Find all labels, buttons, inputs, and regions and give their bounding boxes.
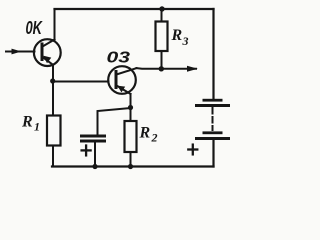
label capacitor plus <box>82 146 91 156</box>
svg-text:3: 3 <box>182 34 189 48</box>
battery GB cell 1 short plate <box>203 99 223 102</box>
transistor Q2 (OE stage) <box>108 66 136 94</box>
wire node A to Q2 base <box>53 81 109 83</box>
resistor R2 <box>125 121 137 152</box>
node R2-rail junction dot <box>128 164 133 169</box>
wire R1 to bottom rail <box>52 146 54 167</box>
wire top rail <box>55 8 214 10</box>
battery GB cell 1 long plate <box>195 104 230 107</box>
node B junction dot <box>128 105 133 110</box>
wire R3 bottom lead <box>161 51 163 69</box>
wire node B to capacitor <box>98 108 131 135</box>
battery GB cell 2 short plate <box>203 131 223 134</box>
node top junction dot <box>159 6 164 11</box>
svg-text:R: R <box>139 125 151 142</box>
wire battery to bottom rail <box>212 140 214 167</box>
battery GB cell 2 long plate <box>195 137 230 140</box>
svg-text:0K: 0K <box>26 18 44 38</box>
wire output with arrow <box>137 67 197 70</box>
svg-text:R: R <box>171 27 183 44</box>
wire bottom rail <box>52 165 214 167</box>
node capacitor-rail junction dot <box>92 164 97 169</box>
wire input to Q1 base <box>6 51 35 53</box>
wire Q1 emitter drop to node A <box>52 65 54 82</box>
svg-text:03: 03 <box>107 50 131 67</box>
svg-text:R: R <box>21 114 33 131</box>
wire Q1 collector riser <box>54 9 56 40</box>
capacitor C top plate <box>80 135 106 138</box>
wire node B down to R2 <box>130 108 132 123</box>
input arrowhead <box>12 49 22 55</box>
node A junction dot <box>50 78 55 83</box>
wire R2 to bottom rail <box>130 153 132 167</box>
resistor R3 <box>156 22 168 52</box>
wire capacitor to bottom rail <box>94 143 96 167</box>
battery dashed link <box>212 108 214 130</box>
wire right rail <box>212 9 214 99</box>
capacitor C bottom plate <box>80 140 106 143</box>
transistor Q1 (OK stage) <box>34 39 61 66</box>
svg-text:2: 2 <box>151 131 158 145</box>
label battery plus <box>188 145 197 155</box>
wire R3 top lead <box>161 9 163 22</box>
node output junction dot <box>159 66 164 71</box>
wire Q2 emitter drop to node B <box>130 94 132 108</box>
resistor R1 <box>47 116 61 146</box>
wire node A down to R1 <box>52 81 54 116</box>
svg-text:1: 1 <box>34 120 40 134</box>
